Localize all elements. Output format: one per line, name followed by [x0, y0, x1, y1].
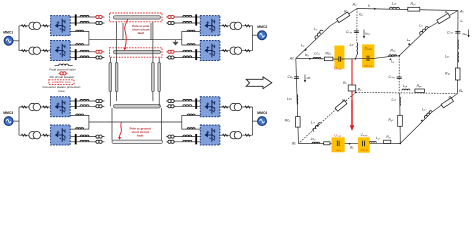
resistor Rc0: [324, 57, 333, 61]
fault current limiter R1 lower pole: [183, 50, 192, 52]
node B1: [349, 143, 351, 145]
DC-link bar R1 upper: [195, 14, 197, 25]
wire front rail left part: [296, 57, 335, 60]
wire DC pole R1: [167, 16, 201, 18]
svg-text:uᴄ: uᴄ: [307, 76, 311, 80]
wire DC bypass R1: [167, 22, 201, 24]
wire DC bypass L2: [70, 100, 104, 102]
wire vertical cable to cable3 right: [158, 92, 160, 107]
fault current limiter R2 lower bypass: [183, 135, 192, 137]
DC cable 3: [114, 105, 161, 108]
svg-text:uₐ₀: uₐ₀: [365, 32, 370, 36]
inductor Lm1: [312, 122, 321, 132]
svg-text:L₁ₜ: L₁ₜ: [376, 136, 380, 140]
svg-text:A₀: A₀: [352, 2, 357, 6]
pole-to-pole fault squiggle: [125, 19, 128, 48]
wire vertical cable to bypass3 left: [116, 92, 118, 102]
wire neutral bus subsystem1: [89, 39, 182, 41]
fault current limiter L2 upper bypass: [80, 99, 89, 101]
vertical DC cable at x152: [152, 63, 155, 92]
neutral reactor L2 lower: [76, 128, 84, 129]
DC-link bar L2 upper: [75, 98, 77, 109]
DC-link bar R2 lower: [195, 134, 197, 144]
neutral reactor L1 lower: [76, 44, 84, 45]
inductor Lc: [356, 43, 359, 56]
neutral reactor R2 lower: [187, 128, 195, 129]
wire MMC4 source lead: [253, 120, 263, 122]
resistor Rk1: [441, 98, 453, 108]
wire dashed back bottom rail: [356, 92, 458, 93]
fault current limiter L2 lower pole: [80, 140, 89, 142]
converter VSC L4 (MMC station): [51, 125, 71, 145]
wire neutral link L1 from lower converter: [70, 40, 89, 45]
voltage arrow ua0: [363, 30, 365, 38]
wire cap1 to N0: [341, 58, 356, 60]
wire neutral link R1 from upper converter: [182, 32, 201, 40]
resistor Rf on fault path: [348, 85, 356, 91]
fault current limiter R2 lower pole: [183, 140, 192, 142]
wire top rail A0-Aa: [357, 9, 458, 11]
current arrow i0: [374, 8, 376, 10]
wire cable3 to cable4 right: [161, 108, 163, 140]
wire DC bypass R2: [167, 136, 201, 138]
wire bottom rail: [299, 142, 401, 144]
wire DC bypass L1: [70, 22, 104, 24]
capacitor Cma: [455, 31, 460, 33]
wire diagonal BRf-BRb: [400, 94, 457, 144]
highlighted capacitor box Ud_p1: [332, 137, 345, 152]
wire MMC4 AC bus: [252, 107, 254, 135]
svg-text:Nₐₚ: Nₐₚ: [463, 32, 468, 36]
wire MMC1 row1 AC feed: [19, 25, 51, 27]
svg-text:R₀: R₀: [344, 9, 349, 13]
inductor L0a: [402, 89, 410, 90]
resistor Rc1: [296, 117, 301, 128]
wire MMC2 row2 AC feed: [220, 50, 253, 52]
legend FCL lead left: [55, 65, 59, 67]
wire dashed A0 to N0: [356, 9, 358, 43]
wire neutral bus subsystem2: [89, 121, 182, 123]
AC source MMC1: [4, 36, 13, 45]
svg-text:Rᴄ₀: Rᴄ₀: [325, 51, 331, 55]
wire diagonal Aa-TRf: [399, 11, 458, 56]
current arrow into TRf: [389, 58, 391, 60]
highlighted capacitor box Cd_p1: [358, 137, 370, 152]
inductor L0t front: [389, 55, 397, 56]
inductor L21: [399, 97, 402, 106]
svg-text:uᴄₙ,ₚ₀: uᴄₙ,ₚ₀: [364, 63, 373, 67]
inductor Lc1: [296, 95, 299, 105]
capacitor Cc0: [294, 77, 299, 79]
fault current limiter L2 lower bypass: [80, 135, 89, 137]
grid impedance MMC4 row4 a: [245, 134, 250, 136]
wire neutral link L2 from lower converter: [70, 122, 89, 129]
wire MMC3 source lead: [9, 120, 19, 122]
resistor Ra: [437, 13, 450, 23]
traditional circuit breaker L2 upper: [94, 99, 103, 102]
DC-link bar R2 upper: [195, 98, 197, 109]
wire cable1 to vertical cable right: [152, 22, 154, 63]
current arrow on diagonal: [421, 119, 424, 122]
svg-text:B₁: B₁: [350, 145, 353, 149]
grid impedance MMC1 row1 b: [43, 25, 48, 27]
svg-text:Cᴄ₀: Cᴄ₀: [288, 75, 294, 79]
ground subsystem1: [172, 40, 178, 46]
protection zone cable 1: [110, 13, 163, 22]
svg-text:iᴄ₀: iᴄ₀: [305, 53, 310, 57]
fault current limiter R1 upper pole: [183, 15, 192, 17]
grid impedance MMC2 row2 b: [222, 50, 227, 52]
inductor L1t: [369, 141, 376, 142]
current arrow iva: [407, 43, 410, 46]
capacitor Cm0 top: [354, 31, 359, 33]
capacitor Cm0 mid: [397, 77, 402, 79]
svg-text:Rₖ: Rₖ: [448, 95, 453, 99]
wire vertical cable to cable3 left: [109, 92, 111, 107]
neutral reactor R2 upper: [187, 114, 195, 115]
traditional circuit breaker L2 lower: [94, 135, 103, 138]
DC-link bar R1 lower: [195, 49, 197, 60]
DC-link bar L1 lower: [75, 49, 77, 60]
transformer MMC2 row1: [230, 22, 242, 29]
wire bypass drop right: [150, 23, 152, 40]
DC circuit breaker R2 upper: [166, 105, 175, 108]
svg-text:R₀ₐ: R₀ₐ: [417, 84, 423, 88]
svg-text:fault: fault: [138, 31, 144, 35]
resistor R0a: [415, 89, 425, 93]
big implication arrow: [246, 77, 272, 89]
inductor Lk1: [424, 110, 432, 118]
wire diagonal A0-Ac: [296, 9, 357, 59]
svg-text:uᴄₙ,ₚ₁: uᴄₙ,ₚ₁: [361, 148, 368, 152]
wire MMC4 row3 AC feed: [220, 106, 253, 108]
DC circuit breaker L2 upper: [94, 105, 103, 108]
transformer MMC1 row2: [29, 47, 41, 54]
wire DC bypass L2: [70, 136, 104, 138]
DC cable 1 (positive pole): [114, 16, 161, 19]
wire vertical cable to bypass3 right: [152, 92, 154, 102]
grid impedance MMC3 row4 b: [43, 134, 48, 136]
current arrow iv0: [304, 49, 307, 52]
DC cable 2 (negative pole): [114, 50, 161, 53]
wire DC pole L1: [70, 16, 104, 18]
wire dashed diagonal B0b-BLf: [299, 92, 356, 143]
wire N0 to cap2: [355, 57, 367, 60]
node N0: [355, 58, 357, 60]
fault current limiter R1 upper bypass: [183, 21, 192, 23]
highlighted capacitor box Cd_p0: [362, 44, 374, 67]
converter VSC R4 (MMC station): [200, 125, 220, 145]
resistor Rm1: [335, 100, 347, 111]
svg-text:B₀: B₀: [358, 88, 362, 92]
DC circuit breaker L1 upper: [94, 15, 103, 18]
svg-text:fault: fault: [137, 133, 143, 137]
capacitor in yellow box 1: [339, 56, 341, 61]
fault current limiter L1 upper bypass: [80, 21, 89, 23]
wire cable3 to cable4 left: [111, 108, 113, 140]
wire mid vertical: [399, 93, 402, 143]
wire cable2 to vertical cable left: [109, 57, 111, 62]
neutral reactor L1 upper: [76, 30, 84, 31]
red fault current path: [351, 59, 353, 127]
grid impedance MMC4 row3 b: [222, 106, 227, 108]
svg-text:Uₙ,ₚ₀: Uₙ,ₚ₀: [334, 66, 342, 70]
svg-text:Cₘₐ: Cₘₐ: [447, 30, 454, 34]
wire neutral link R1 from lower converter: [182, 40, 201, 45]
voltage arrow uc0: [304, 75, 306, 82]
red fault arrowhead: [350, 125, 354, 131]
traditional circuit breaker L1 lower: [94, 56, 103, 59]
node BRf: [400, 143, 402, 145]
svg-text:iᴄ₀: iᴄ₀: [359, 13, 364, 17]
grid impedance MMC4 row3 a: [245, 106, 250, 108]
svg-text:Bᴄ: Bᴄ: [292, 142, 296, 146]
AC source MMC2: [258, 31, 267, 40]
transformer MMC3 row3: [29, 103, 41, 110]
grid impedance MMC1 row2 b: [43, 50, 48, 52]
grid impedance MMC3 row3 b: [43, 106, 48, 108]
converter VSC R2 (MMC station): [200, 41, 220, 61]
wire neutral link L1 from upper converter: [70, 32, 89, 40]
wire DC bypass R1: [167, 57, 201, 59]
neutral reactor R1 upper: [187, 30, 195, 31]
fault current limiter L1 upper pole: [80, 15, 89, 17]
voltage arrow uaa: [468, 30, 470, 37]
transformer MMC2 row2: [230, 47, 242, 54]
svg-text:R₁ₜ: R₁ₜ: [386, 135, 390, 139]
svg-text:Lₖ: Lₖ: [422, 107, 426, 111]
wire Lc to N0: [355, 55, 356, 59]
wire dashed TRf down: [398, 56, 400, 93]
DC circuit breaker L1 lower: [94, 50, 103, 53]
svg-text:Cₘ₀: Cₘ₀: [389, 75, 396, 79]
inductor Lat upper: [457, 40, 460, 50]
wire vertical Aa-BRb: [457, 11, 460, 94]
wire MMC1 source lead: [9, 40, 19, 42]
AC source MMC4: [258, 117, 267, 126]
node TRf: [398, 55, 400, 57]
transformer MMC3 row4: [29, 132, 41, 139]
wire DC pole R1: [167, 51, 201, 53]
converter VSC R1 (MMC station): [200, 16, 220, 36]
svg-text:DC circuit breaker: DC circuit breaker: [50, 75, 75, 79]
svg-text:Lᴄ₀: Lᴄ₀: [314, 52, 320, 56]
AC source MMC3: [4, 117, 13, 126]
wire DC pole L1: [70, 51, 104, 53]
wire DC bypass L1: [70, 57, 104, 59]
traditional circuit breaker R1 upper: [166, 21, 175, 24]
svg-text:Cₙ,ₚ₀: Cₙ,ₚ₀: [365, 47, 373, 51]
capacitor in yellow box 2: [367, 56, 369, 61]
vertical DC cable at x159: [158, 63, 161, 92]
wire MMC4 row4 AC feed: [220, 134, 253, 136]
grid impedance MMC3 row4 a: [21, 134, 26, 136]
wire DC bypass R2: [167, 100, 201, 102]
svg-text:Rᵥ₀: Rᵥ₀: [390, 49, 396, 53]
grid impedance MMC2 row1 b: [222, 25, 227, 27]
DC-link bar L2 lower: [75, 134, 77, 144]
grid impedance MMC4 row4 b: [222, 134, 227, 136]
wire neutral link R2 from upper converter: [182, 115, 201, 122]
wire DC pole R2: [167, 105, 201, 107]
grid impedance MMC3 row3 a: [21, 106, 26, 108]
svg-text:L₀: L₀: [314, 27, 318, 31]
wire DC pole L2: [70, 105, 104, 107]
fault current limiter L1 lower pole: [80, 50, 89, 52]
svg-text:Cₙ,ₚ₁: Cₙ,ₚ₁: [361, 133, 368, 137]
traditional circuit breaker R1 lower: [166, 56, 175, 59]
inductor L0t: [390, 7, 400, 9]
highlighted capacitor box Ud_p0: [334, 46, 344, 69]
neutral reactor L2 upper: [76, 114, 84, 115]
svg-text:MMC4: MMC4: [257, 111, 267, 115]
capacitor in yellow box 3: [337, 141, 339, 146]
svg-text:Lᴄ: Lᴄ: [350, 43, 354, 47]
fault current limiter L2 upper pole: [80, 105, 89, 107]
converter VSC L1 (MMC station): [51, 16, 71, 36]
wire front rail right part: [374, 56, 399, 59]
svg-text:R₁ₐ: R₁ₐ: [445, 72, 451, 76]
wire MMC3 row3 AC feed: [19, 106, 51, 108]
transformer MMC1 row1: [29, 22, 41, 29]
wire MMC1 row2 AC feed: [19, 50, 51, 52]
wire neutral link L2 from upper converter: [70, 115, 89, 122]
fault current limiter R2 upper pole: [183, 105, 192, 107]
DC-link bar L1 upper: [75, 14, 77, 25]
grid impedance MMC1 row1 a: [21, 25, 26, 27]
wire vertical Ac-BLf: [296, 58, 299, 143]
protection zone cable 2: [110, 48, 163, 57]
wire cable1 to vertical cable left: [116, 22, 118, 63]
resistor R21: [398, 115, 403, 126]
wire cable2 to vertical cable right: [158, 57, 160, 62]
traditional circuit breaker L1 upper: [94, 21, 103, 24]
inductor Lb1: [312, 142, 320, 143]
resistor Rb1: [324, 142, 330, 145]
legend protection zone box: [49, 80, 74, 85]
resistor R0: [337, 12, 350, 23]
svg-text:protection zone: protection zone: [52, 80, 71, 84]
grid impedance MMC2 row2 a: [245, 50, 250, 52]
svg-text:MMC1: MMC1: [3, 31, 13, 35]
wire into cap1: [334, 58, 339, 60]
vertical DC cable at x110: [109, 63, 112, 92]
svg-text:MMC3: MMC3: [3, 111, 13, 115]
DC circuit breaker R1 upper: [166, 15, 175, 18]
fault current limiter R2 upper bypass: [183, 99, 192, 101]
transformer MMC4 row4: [230, 132, 242, 139]
inductor La1: [457, 52, 460, 63]
svg-text:iᵥ₀: iᵥ₀: [301, 43, 305, 47]
legend fault current limiter symbol: [59, 64, 69, 66]
inductor La: [419, 26, 429, 35]
grid impedance MMC2 row1 a: [245, 25, 250, 27]
wire MMC3 row4 AC feed: [19, 134, 51, 136]
svg-text:Rₘ: Rₘ: [342, 98, 348, 102]
legend FCL lead right: [69, 65, 73, 67]
svg-text:Cₘ₀: Cₘ₀: [346, 30, 353, 34]
wire MMC2 source lead: [253, 34, 263, 36]
wire cap2 out: [369, 57, 374, 59]
converter VSC R3 (MMC station): [200, 97, 220, 117]
fault current limiter L1 lower bypass: [80, 56, 89, 58]
node B0b: [355, 92, 357, 94]
resistor R0t: [408, 7, 420, 11]
wire bypass drop left: [122, 23, 124, 40]
traditional circuit breaker R2 upper: [166, 99, 175, 102]
wire MMC3 AC bus: [18, 107, 20, 135]
vertical DC cable at x116: [115, 63, 118, 92]
pole-to-ground fault squiggle: [119, 122, 121, 138]
current arrow ic: [309, 58, 311, 60]
wire MMC1 AC bus: [18, 26, 20, 51]
inductor L0: [314, 29, 323, 39]
DC cable 4: [112, 140, 163, 143]
inductor Lc0: [313, 57, 321, 58]
converter VSC L2 (MMC station): [51, 41, 71, 61]
svg-text:Rₙ: Rₙ: [343, 81, 348, 85]
fault current limiter R1 lower bypass: [183, 56, 192, 58]
capacitor in yellow box 4: [363, 141, 365, 146]
svg-text:zone: zone: [58, 89, 65, 93]
neutral reactor R1 lower: [187, 44, 195, 45]
svg-text:uᴄ₁: uᴄ₁: [336, 148, 340, 152]
svg-text:Fault current limiter: Fault current limiter: [49, 67, 75, 71]
wire DC pole R2: [167, 141, 201, 143]
wire DC pole L2: [70, 141, 104, 143]
svg-text:Rᴄ₁: Rᴄ₁: [285, 119, 291, 123]
DC circuit breaker R1 lower: [166, 50, 175, 53]
wire neutral link R2 from lower converter: [182, 122, 201, 129]
grid impedance MMC1 row2 a: [21, 50, 26, 52]
resistor R1a: [455, 68, 460, 80]
traditional circuit breaker R2 lower: [166, 135, 175, 138]
svg-text:Aₐ: Aₐ: [459, 9, 464, 13]
converter VSC L3 (MMC station): [51, 97, 71, 117]
wire MMC2 row1 AC feed: [220, 25, 253, 27]
svg-text:Uₙ,ₚ₁: Uₙ,ₚ₁: [334, 133, 341, 137]
svg-text:Lᴄ₂: Lᴄ₂: [311, 137, 316, 141]
legend DC circuit breaker symbol: [58, 72, 67, 75]
svg-text:Aᴄ: Aᴄ: [289, 57, 294, 61]
svg-text:MMC2: MMC2: [257, 25, 267, 29]
wire MMC2 AC bus: [252, 26, 254, 51]
DC circuit breaker L2 lower: [94, 140, 103, 143]
DC circuit breaker R2 lower: [166, 140, 175, 143]
transformer MMC4 row3: [230, 103, 242, 110]
resistor R1t: [384, 140, 391, 143]
